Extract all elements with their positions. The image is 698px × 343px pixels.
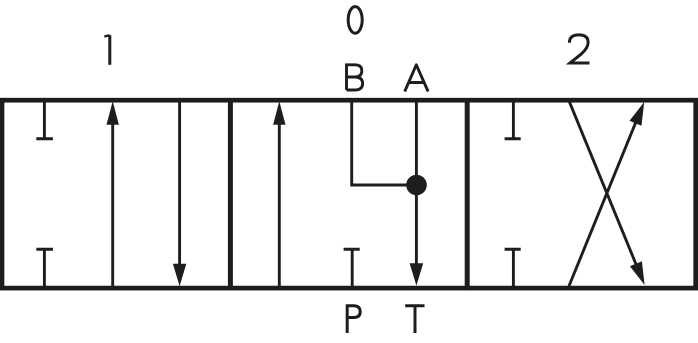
label 1 (position 1): [104, 35, 110, 65]
flow arrow up, position 1: [107, 101, 119, 288]
flow arrow up, position 0: [273, 101, 285, 288]
valve body frame: [2, 100, 696, 288]
label 2 (position 2): [569, 35, 589, 63]
label T (port T): [405, 306, 424, 333]
blocked port, position 2 bottom: [505, 249, 521, 288]
wire from port B, position 0: [352, 100, 412, 185]
crossed flow arrow rising, position 2: [569, 102, 644, 286]
blocked port P, position 0: [344, 249, 360, 288]
label 0 (position 0): [348, 7, 362, 34]
blocked port, position 1 bottom: [36, 249, 53, 288]
label P (port P): [347, 306, 360, 333]
flow arrow down, position 1: [173, 100, 186, 286]
blocked port, position 2 top: [505, 101, 521, 139]
label A (port A): [405, 65, 428, 92]
divider between position 0 and position 2: [465, 98, 470, 290]
crossed flow arrow falling, position 2: [569, 102, 644, 285]
blocked port, position 1 top: [36, 101, 53, 139]
divider between position 1 and position 0: [228, 98, 233, 290]
label B (port B): [347, 65, 363, 90]
junction node on A line, position 0: [406, 175, 427, 196]
flow arrow A to T, position 0: [410, 100, 424, 286]
